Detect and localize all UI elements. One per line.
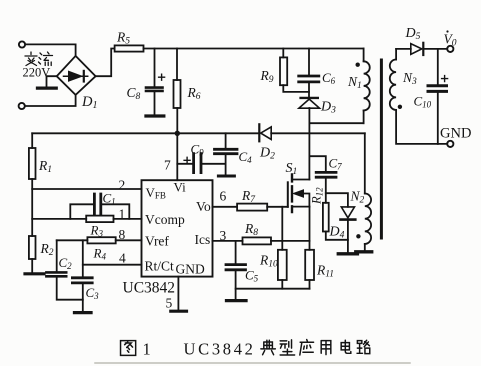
bridge inner diode cathode bar: [83, 71, 85, 82]
diode D2 cathode bar: [258, 124, 260, 141]
wire C7 to R12: [325, 179, 327, 203]
wire C6 to D3: [308, 83, 310, 96]
wire N3 bottom to GND terminal: [396, 110, 447, 144]
capacitor C9 right stub: [202, 163, 225, 165]
caption char 电: [341, 340, 351, 353]
GND terminal: [447, 141, 453, 147]
ground bar C5: [227, 299, 247, 302]
capacitor C10 polarity +: [442, 76, 448, 82]
wire C3 drop from Vref line: [82, 240, 84, 276]
resistor R1: [29, 148, 36, 179]
capacitor C4 stub: [225, 133, 227, 148]
wire pin7 Vi: [176, 134, 178, 180]
wire C2 bottom to C3 line: [57, 278, 83, 300]
capacitor C9 polarity +: [184, 157, 190, 163]
wire R10 bottom: [281, 280, 283, 289]
wire R10 drop from gate line: [281, 207, 283, 250]
wire N2 to ground: [364, 244, 366, 250]
wire top terminal to bridge: [25, 44, 75, 56]
wire drain node to N1 bottom: [309, 122, 363, 124]
capacitor C9 left stub: [177, 163, 192, 165]
wire C7 jog from drain vertical: [309, 156, 325, 171]
transformer winding N3: [390, 60, 396, 110]
resistor R5: [115, 45, 144, 51]
wire D4 to ground: [347, 221, 349, 252]
resistor R7: [237, 204, 267, 211]
resistor R2: [29, 236, 36, 259]
bridge inner diode triangle: [69, 71, 83, 81]
capacitor C8 stub: [154, 49, 156, 87]
ground bar C2 C3: [75, 311, 92, 314]
transistor S1 channel bar segments: [291, 175, 293, 213]
capacitor C8 plates: [146, 88, 163, 91]
resistor R6 stub top: [176, 49, 178, 81]
winding N1 bottom lead: [363, 111, 365, 124]
resistor R9: [280, 57, 287, 85]
resistor R10: [278, 250, 287, 280]
svg-text:UC3842: UC3842: [184, 340, 256, 359]
capacitor C4 plates: [215, 149, 238, 153]
ground bar at bridge: [38, 86, 57, 89]
end bar C4: [218, 175, 234, 178]
resistor R11: [305, 250, 314, 280]
AC input terminal top: [19, 41, 25, 47]
label 交流 220V: [25, 52, 53, 66]
caption char 路: [357, 340, 370, 353]
diode D2 triangle: [261, 127, 272, 139]
junction dot Vcc node: [175, 131, 180, 136]
wire Vcc rail left segment: [32, 132, 258, 134]
wire R2 to ground: [31, 259, 33, 272]
diode D4 triangle: [341, 207, 354, 218]
wire C5 to ground: [235, 271, 237, 299]
transistor Q1 S1 gate bar: [287, 182, 289, 207]
wire Vcc rail right segment to N2: [271, 132, 365, 134]
wire pin1 Vcomp: [32, 218, 141, 220]
caption char 型: [280, 340, 294, 355]
capacitor C6 plates: [299, 76, 319, 82]
capacitor C9 plates: [194, 154, 201, 173]
wire bridge to R5: [96, 49, 115, 77]
capacitor C5 plates: [226, 265, 246, 270]
transformer core: [380, 60, 383, 238]
wire divider rail R1 to R2: [31, 179, 33, 236]
wire C4 bottom: [225, 155, 227, 174]
wire drain node vertical D3 to drain corner: [308, 108, 310, 180]
capacitor C5 drop: [235, 241, 237, 263]
resistor R12: [323, 203, 329, 232]
wire D5 to V0 terminal: [425, 48, 448, 50]
wire source to R11: [309, 207, 311, 250]
capacitor C10 plates: [428, 86, 447, 92]
wire R1 top corner: [31, 133, 33, 148]
V0 output terminal: [447, 46, 453, 52]
wire branch to D4 anode: [326, 193, 348, 207]
diode D4 cathode bar: [341, 218, 356, 221]
capacitor C1 plates: [94, 194, 100, 215]
capacitor C7 plates: [316, 172, 336, 177]
svg-text:1: 1: [143, 340, 151, 359]
wire R9 bottom to snubber node: [283, 85, 309, 92]
op-amp U1 UC3842 chip box: [142, 180, 213, 276]
transformer winding N1 top lead: [363, 49, 365, 62]
wire bottom sense rail: [236, 288, 310, 290]
wire top supply rail: [144, 48, 364, 50]
wire C8 to ground: [154, 92, 156, 114]
capacitor C2 plates: [46, 272, 66, 276]
resistor R6: [174, 80, 181, 108]
capacitor C6 stub: [308, 49, 310, 75]
wire pin3 to R8: [213, 240, 243, 242]
capacitor C3 plates: [72, 278, 92, 283]
resistor R3: [87, 237, 115, 243]
diode D3 cathode bar: [301, 97, 318, 99]
resistor R8: [243, 237, 272, 244]
caption char 典: [261, 340, 275, 354]
diode D5 cathode bar: [422, 43, 424, 55]
bridge inner diode lead: [64, 75, 88, 77]
wire R8 to source node: [271, 240, 310, 242]
wire C10 to GND wire: [437, 93, 439, 144]
wire R7 to gate: [267, 206, 288, 208]
winding N2 polarity dot: [356, 234, 360, 238]
wire pin2 VFB: [32, 188, 141, 190]
ground bar D4: [338, 252, 357, 255]
ground bar N2: [356, 250, 372, 253]
winding N2 top lead from Vcc rail: [364, 133, 366, 193]
compensation resistor box on Vcomp line: [86, 216, 113, 223]
winding N3 polarity dot: [398, 105, 402, 109]
ground bar C8: [146, 114, 164, 117]
caption char 图: [121, 341, 136, 356]
wire pin4 RtCt labeled R4: [83, 264, 142, 266]
transistor S1 body arrowhead: [293, 190, 304, 198]
transistor S1 source lead: [293, 206, 310, 208]
transistor S1 drain lead: [293, 179, 310, 181]
wire N3 top to D5: [396, 48, 411, 50]
caption char 应: [300, 340, 314, 355]
transistor S1 body arrow lead: [299, 194, 309, 207]
diode D5 triangle: [411, 44, 422, 55]
wire C2 drop: [56, 240, 58, 271]
winding N3 top lead: [395, 49, 397, 60]
capacitor C8 polarity +: [159, 74, 165, 80]
resistor R9 stub top: [282, 49, 284, 58]
transformer winding N2: [365, 194, 371, 244]
diode D3 triangle: [299, 99, 320, 108]
wire R6 to junction: [176, 108, 178, 133]
wire pin8 Vref with R3: [57, 239, 142, 241]
capacitor C1 left bracket wire: [70, 204, 93, 219]
pin 5 end bar: [171, 310, 187, 313]
wire R11 bottom: [309, 280, 311, 289]
bridge rectifier D1 diamond: [57, 56, 96, 95]
wire R12 bottom to D4 line: [326, 232, 348, 240]
capacitor C10 drop: [437, 49, 439, 84]
winding N1 polarity dot: [356, 62, 360, 66]
V0 dot accent: [446, 30, 448, 32]
capacitor C1 right bracket wire: [102, 204, 129, 219]
pin 5 stub: [177, 277, 179, 310]
caption char 用: [321, 341, 331, 355]
AC input terminal bottom: [19, 103, 25, 109]
faint page rule: [95, 362, 410, 364]
transformer winding N1: [364, 61, 370, 110]
wire C3 to ground: [82, 284, 84, 311]
ground stub at bridge: [47, 76, 57, 86]
wire pin6 to R7: [213, 206, 238, 208]
ground bar R2: [25, 272, 44, 275]
wire bottom terminal to bridge: [25, 95, 76, 106]
